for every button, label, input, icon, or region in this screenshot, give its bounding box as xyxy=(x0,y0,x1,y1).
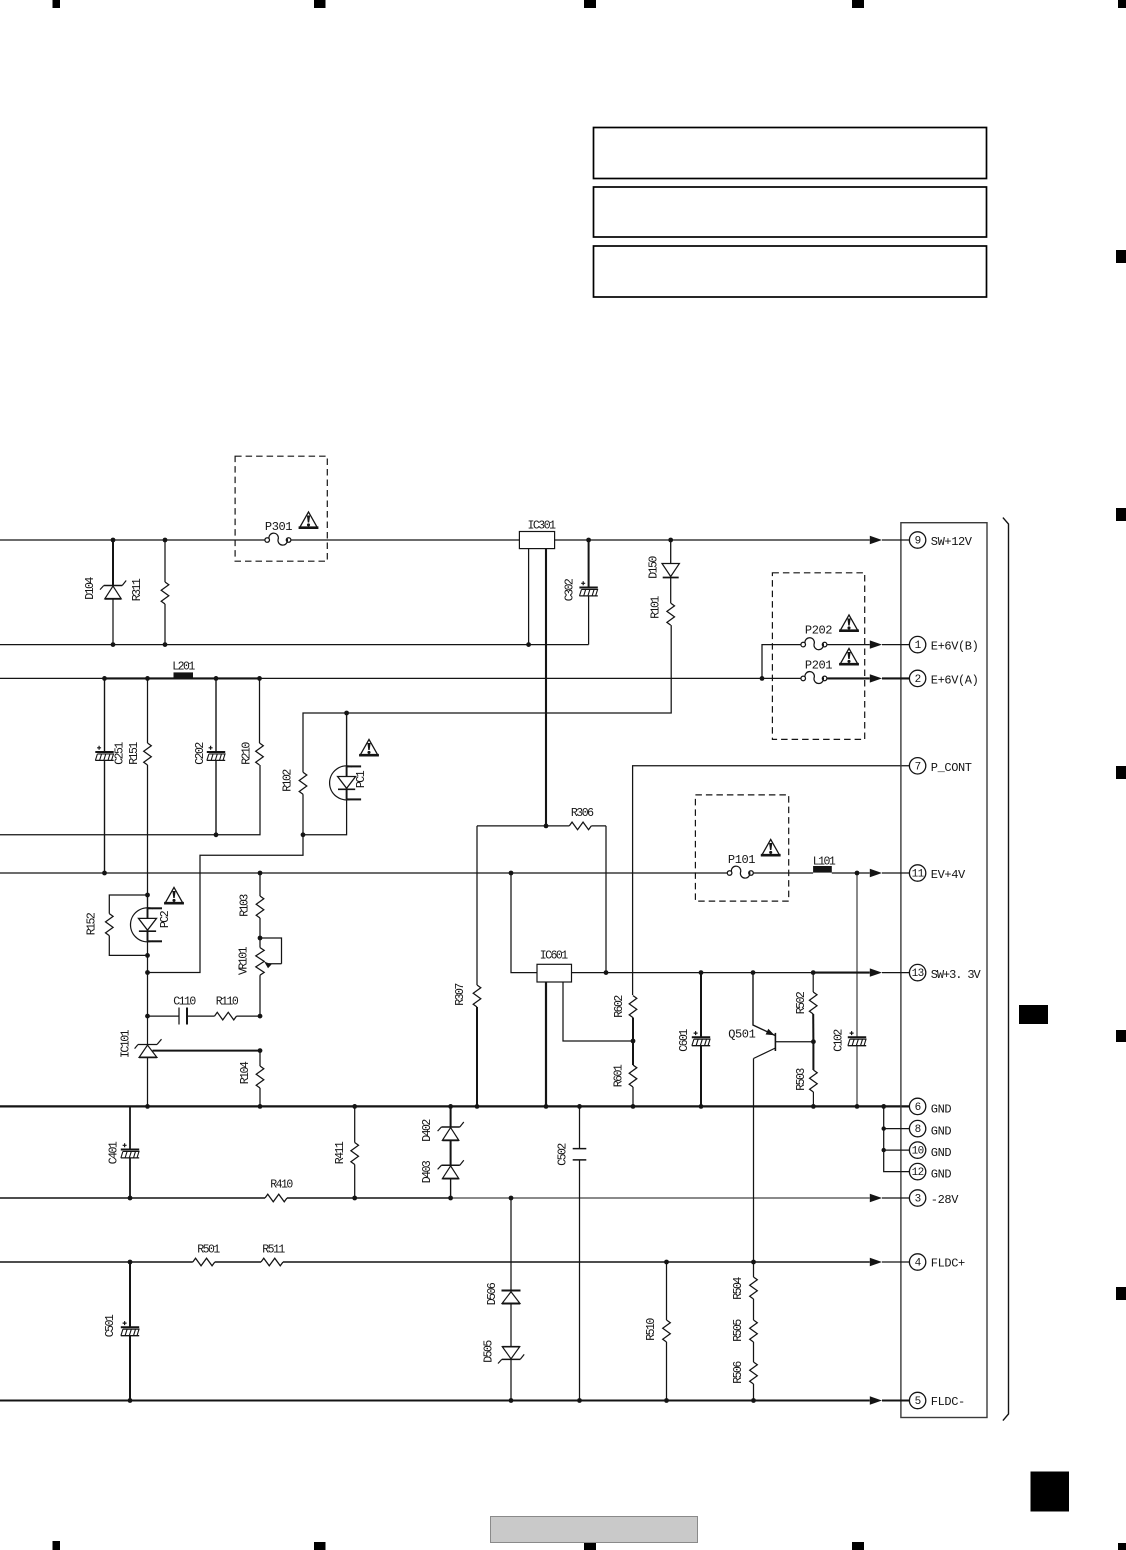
inductor L201 xyxy=(172,661,195,679)
optocoupler PC2 (LED side) xyxy=(130,895,171,1016)
svg-text:-28V: -28V xyxy=(931,1193,959,1207)
svg-text:C502: C502 xyxy=(557,1143,570,1166)
diode D402 (zener) xyxy=(421,1106,464,1165)
diode D150 xyxy=(648,540,680,603)
svg-text:2: 2 xyxy=(915,674,921,686)
wire EV+4V rail (net E) xyxy=(0,871,870,876)
resistor R502 xyxy=(795,973,817,1042)
warning triangle near P202 xyxy=(839,615,859,631)
svg-text:R505: R505 xyxy=(732,1319,745,1342)
wire IC601 feedback pin to R602/R601 node xyxy=(563,982,635,1065)
resistor R505 xyxy=(732,1299,757,1342)
warning triangle near P301 xyxy=(299,512,319,528)
svg-text:R152: R152 xyxy=(86,912,99,935)
svg-text:GND: GND xyxy=(931,1168,952,1182)
node pin 4 FLDC+ xyxy=(909,1254,965,1271)
resistor R411 xyxy=(334,1106,359,1198)
arrow into pin 4 xyxy=(870,1258,910,1266)
resistor R503 xyxy=(795,1042,817,1107)
wire D506/D505 branch from -28V to FLDC- xyxy=(510,1198,512,1401)
IC IC101 (shunt regulator) xyxy=(120,1016,263,1106)
wire EV+4V branch into IC601 input xyxy=(511,873,537,973)
capacitor C401 (electrolytic) xyxy=(108,1106,140,1198)
svg-text:R151: R151 xyxy=(128,742,141,765)
resistor R152 xyxy=(86,893,150,958)
svg-text:3: 3 xyxy=(915,1194,921,1206)
svg-text:R110: R110 xyxy=(216,996,239,1009)
wire R306 to SW+3.3V node riser xyxy=(605,826,607,973)
brace bracket right of connector xyxy=(1003,518,1009,1421)
svg-text:VR101: VR101 xyxy=(237,946,250,975)
potentiometer VR101 xyxy=(237,936,281,1017)
wire FLDC+ rail xyxy=(0,1260,870,1265)
node pin 5 FLDC- xyxy=(909,1392,964,1409)
svg-text:PC1: PC1 xyxy=(355,770,368,788)
wire GND rail xyxy=(0,1104,909,1109)
arrow into pin 13 xyxy=(870,968,910,976)
warning triangle near P201 xyxy=(839,648,859,664)
node pin 12 GND xyxy=(909,1163,951,1181)
svg-text:E+6V(A): E+6V(A) xyxy=(931,674,979,688)
svg-text:SW+12V: SW+12V xyxy=(931,535,973,549)
IC U IC301 (regulator) xyxy=(519,519,556,644)
svg-text:R503: R503 xyxy=(795,1068,808,1091)
svg-text:IC301: IC301 xyxy=(527,519,556,532)
capacitor C501 (electrolytic) xyxy=(104,1262,139,1401)
warning triangle near P101 xyxy=(761,839,781,855)
svg-text:GND: GND xyxy=(931,1146,952,1160)
warning triangle near PC2 xyxy=(164,887,184,903)
svg-text:9: 9 xyxy=(915,536,921,548)
svg-text:R104: R104 xyxy=(239,1061,252,1084)
resistor R110 xyxy=(215,996,263,1020)
svg-text:R101: R101 xyxy=(650,596,663,619)
warning triangle near PC1 xyxy=(359,739,379,755)
svg-text:R311: R311 xyxy=(131,578,144,601)
svg-text:C501: C501 xyxy=(104,1314,117,1337)
capacitor C302 (electrolytic) xyxy=(564,540,598,645)
svg-text:8: 8 xyxy=(915,1124,921,1136)
svg-text:R103: R103 xyxy=(238,894,251,917)
wire FLDC- rail xyxy=(0,1398,870,1403)
svg-text:FLDC+: FLDC+ xyxy=(931,1257,965,1271)
resistor R101 xyxy=(650,596,675,625)
svg-text:SW+3. 3V: SW+3. 3V xyxy=(931,968,982,982)
arrow into pin 2 xyxy=(870,674,910,682)
arrow into pin 11 xyxy=(870,869,910,877)
node pin 7 P_CONT xyxy=(909,758,971,775)
wire SW+12V rail (net A) xyxy=(0,538,870,543)
svg-text:C110: C110 xyxy=(173,996,196,1009)
svg-text:D505: D505 xyxy=(483,1340,496,1363)
svg-text:P301: P301 xyxy=(265,520,292,534)
node pin 10 GND xyxy=(909,1142,951,1160)
svg-text:IC601: IC601 xyxy=(540,949,569,962)
svg-text:IC101: IC101 xyxy=(120,1029,133,1058)
svg-text:P202: P202 xyxy=(805,624,832,638)
svg-text:D104: D104 xyxy=(84,577,97,600)
svg-text:P_CONT: P_CONT xyxy=(931,761,972,775)
wire E+6V(A) rail (net C) xyxy=(0,676,801,681)
wire IC301 output to R306/R307 node xyxy=(477,549,606,829)
svg-text:R511: R511 xyxy=(262,1244,285,1257)
node pin 11 EV+4V xyxy=(909,865,966,882)
node pin 9 SW+12V xyxy=(909,532,972,549)
resistor R506 xyxy=(732,1342,757,1401)
inductor L101 xyxy=(813,855,836,872)
node pin 13 SW+3.3V xyxy=(909,964,981,981)
svg-text:11: 11 xyxy=(912,869,925,881)
resistor R210 xyxy=(240,678,263,765)
svg-text:7: 7 xyxy=(915,761,921,773)
svg-text:R502: R502 xyxy=(795,991,808,1014)
wire net D lower return rail xyxy=(0,765,260,837)
capacitor C502 xyxy=(557,1143,587,1166)
resistor R511 xyxy=(261,1244,285,1266)
empty title blocks at top right xyxy=(594,128,987,298)
svg-text:6: 6 xyxy=(915,1102,921,1114)
node pin 8 GND xyxy=(909,1120,951,1138)
resistor R601 xyxy=(613,1064,637,1106)
svg-text:L201: L201 xyxy=(172,661,195,674)
wire R102/R101/PC1 top link at y=713 xyxy=(303,625,671,772)
svg-text:R510: R510 xyxy=(645,1318,658,1341)
svg-text:GND: GND xyxy=(931,1125,952,1139)
svg-text:C251: C251 xyxy=(113,742,126,765)
resistor R103 xyxy=(238,873,264,938)
svg-text:R506: R506 xyxy=(732,1361,745,1384)
svg-text:D506: D506 xyxy=(486,1282,499,1305)
resistor R102 xyxy=(282,769,307,835)
resistor R410 xyxy=(265,1179,293,1202)
resistor R151 xyxy=(128,678,151,895)
svg-text:C401: C401 xyxy=(108,1141,121,1164)
resistor R104 xyxy=(239,1051,264,1107)
svg-text:10: 10 xyxy=(912,1146,924,1158)
resistor R311 xyxy=(131,540,169,645)
fuse P202 xyxy=(801,624,870,650)
resistor R510 xyxy=(645,1262,670,1401)
svg-text:PC2: PC2 xyxy=(159,910,172,928)
svg-text:D402: D402 xyxy=(421,1119,434,1142)
dashed service box around P301 xyxy=(235,456,327,561)
svg-text:12: 12 xyxy=(912,1167,924,1179)
svg-text:R306: R306 xyxy=(571,807,594,820)
svg-text:R411: R411 xyxy=(334,1141,347,1164)
connector box CN outline xyxy=(901,523,987,1418)
wire IC601 ground pin xyxy=(545,982,547,1106)
wire staircase from R102 bottom to PC2 cathode line xyxy=(145,799,347,974)
wire C502 branch GND to FLDC- xyxy=(579,1106,581,1400)
arrow into pin 9 xyxy=(870,536,910,544)
svg-text:C202: C202 xyxy=(194,742,207,765)
svg-text:E+6V(B): E+6V(B) xyxy=(931,640,979,654)
gray label strip at bottom xyxy=(491,1517,698,1543)
svg-text:P101: P101 xyxy=(728,853,755,867)
diode D104 (zener) xyxy=(84,540,126,645)
resistor R307 xyxy=(454,984,481,1007)
wire E+6V(B) branch riser and P202 feed xyxy=(762,645,801,679)
arrow into pin 5 xyxy=(870,1396,910,1404)
fuse P101 xyxy=(727,853,755,878)
svg-text:4: 4 xyxy=(915,1258,922,1270)
capacitor C251 (electrolytic) xyxy=(95,678,126,873)
capacitor C102 (electrolytic) xyxy=(833,1029,867,1052)
resistor R602 xyxy=(613,995,637,1018)
resistor R501 xyxy=(193,1244,221,1266)
svg-text:D403: D403 xyxy=(421,1160,434,1183)
svg-text:C601: C601 xyxy=(678,1029,691,1052)
svg-text:R501: R501 xyxy=(197,1244,220,1257)
arrow into pin 1 xyxy=(870,640,910,648)
svg-text:L101: L101 xyxy=(813,855,836,868)
svg-text:5: 5 xyxy=(915,1396,921,1408)
svg-text:FLDC-: FLDC- xyxy=(931,1395,965,1409)
wire Q501 emitter feed to FLDC+ xyxy=(753,1059,755,1263)
resistor R504 xyxy=(732,1262,757,1300)
svg-text:D150: D150 xyxy=(648,556,661,579)
wire -28V rail xyxy=(0,1196,870,1201)
IC IC601 (3.3V regulator) xyxy=(537,949,572,982)
wire GND pin bus for pins 8/10/12 xyxy=(882,1106,910,1171)
fuse P201 xyxy=(801,659,870,684)
transistor Q501 (PNP) xyxy=(728,973,816,1059)
svg-text:1: 1 xyxy=(915,640,922,652)
diode D506 xyxy=(486,1282,521,1305)
svg-text:R602: R602 xyxy=(613,995,626,1018)
capacitor C202 (electrolytic) xyxy=(194,678,225,834)
fuse P301 xyxy=(265,520,292,545)
wire +12V return rail (net B) xyxy=(0,642,589,647)
dashed service box around P202/P201 xyxy=(772,573,864,740)
svg-text:C302: C302 xyxy=(564,578,577,601)
node pin 3 -28V xyxy=(909,1190,959,1207)
diode D403 (zener) xyxy=(421,1160,464,1198)
arrow into pin 3 xyxy=(870,1194,910,1202)
node pin 1 E+6V(B) xyxy=(909,636,978,653)
svg-text:P201: P201 xyxy=(805,659,832,673)
svg-text:Q501: Q501 xyxy=(728,1028,755,1042)
wire SW+3.3V output line xyxy=(572,970,870,975)
optocoupler PC1 (LED side) xyxy=(330,713,368,800)
svg-text:R102: R102 xyxy=(282,769,295,792)
capacitor C110 xyxy=(145,996,214,1025)
svg-text:R210: R210 xyxy=(240,742,253,765)
node pin 2 E+6V(A) xyxy=(909,670,978,687)
svg-text:R307: R307 xyxy=(454,984,467,1006)
diode D505 (zener) xyxy=(483,1340,525,1364)
wire C102 branch from EV+4V xyxy=(856,873,858,1106)
svg-text:R504: R504 xyxy=(732,1277,745,1300)
dashed service box around P101 xyxy=(695,795,788,901)
svg-text:GND: GND xyxy=(931,1102,952,1116)
capacitor C601 (electrolytic) xyxy=(678,973,710,1107)
node pin 6 GND xyxy=(909,1098,951,1116)
wire P_CONT line from pin 7 to R602 xyxy=(633,766,910,995)
svg-text:R410: R410 xyxy=(270,1179,293,1192)
wire R307 branch vertical xyxy=(476,826,478,1107)
svg-text:R601: R601 xyxy=(613,1064,626,1087)
resistor R306 xyxy=(569,807,594,830)
svg-text:EV+4V: EV+4V xyxy=(931,868,966,882)
svg-text:13: 13 xyxy=(912,968,924,980)
svg-text:C102: C102 xyxy=(833,1029,846,1052)
